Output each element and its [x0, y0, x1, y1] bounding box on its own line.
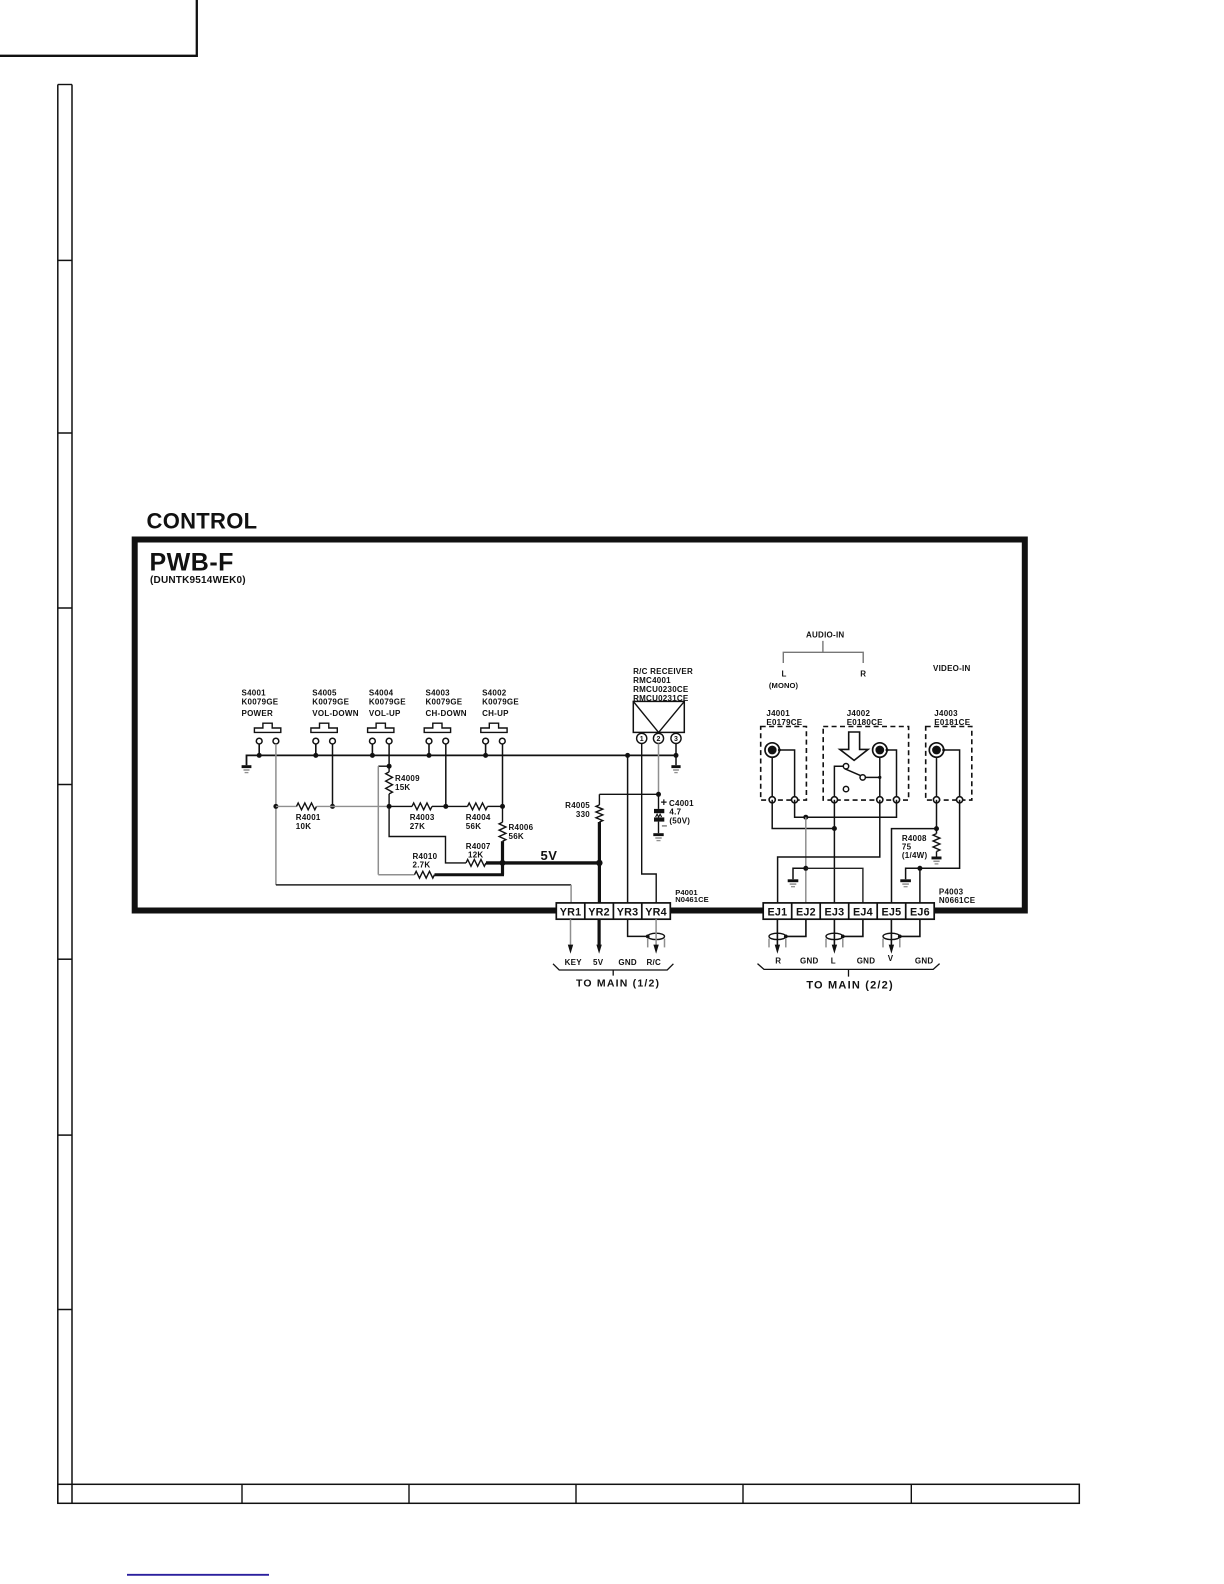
- svg-text:+: +: [661, 797, 667, 809]
- labels R GND L GND V GND: [775, 954, 933, 965]
- svg-text:GND: GND: [618, 958, 637, 967]
- receiver pin 3: [671, 733, 681, 743]
- receiver pin 1: [637, 733, 647, 743]
- junction GND bus to YR3: [625, 753, 630, 758]
- ground symbol below receiver pin3: [671, 765, 680, 772]
- wire S4004 right terminal down: [388, 744, 390, 766]
- wire KEY net S4001 right terminal down and across to YR1: [276, 744, 571, 904]
- resistor R4001 10K: [276, 803, 389, 831]
- svg-text:R4009: R4009: [395, 774, 420, 783]
- svg-text:EJ3: EJ3: [824, 906, 844, 918]
- svg-text:R/C: R/C: [647, 958, 662, 967]
- wire R/C arrow below YR4: [653, 919, 658, 954]
- junction S4004 on ground bus: [370, 753, 375, 758]
- capacitor C4001 4.7uF 50V: [654, 794, 694, 833]
- junction R4009 top: [387, 764, 392, 769]
- junction KEY/R4001: [273, 804, 278, 809]
- svg-text:R4001: R4001: [296, 813, 321, 822]
- svg-text:RMC4001: RMC4001: [633, 676, 671, 685]
- svg-text:1: 1: [640, 736, 644, 743]
- junction S4003/R4003: [443, 804, 448, 809]
- jack pin circles on dashed outlines: [769, 797, 963, 803]
- cable shield at EJ1: [769, 933, 788, 947]
- junction 5V rail / R4005: [596, 860, 602, 866]
- cable shield at EJ5: [883, 933, 902, 947]
- left revision ladder column: [58, 85, 72, 1504]
- svg-text:N0661CE: N0661CE: [939, 896, 976, 905]
- RCA jack J4003: [929, 743, 945, 757]
- svg-text:3: 3: [674, 736, 678, 743]
- label P4001 N0461CE: [675, 888, 709, 904]
- bottom table row: [58, 1484, 1080, 1503]
- wire S4002 right terminal down: [502, 744, 504, 806]
- wire J4002 switch pin down to EJ3: [833, 800, 835, 904]
- svg-text:E0181CE: E0181CE: [934, 718, 970, 727]
- wire R4005 bottom to YR2 (thick 5V): [598, 822, 601, 904]
- svg-text:K0079GE: K0079GE: [242, 697, 279, 706]
- svg-text:V: V: [888, 954, 894, 963]
- svg-text:VOL-DOWN: VOL-DOWN: [312, 709, 358, 718]
- RCA jack J4002: [873, 743, 889, 757]
- schematic border PWB-F: [135, 540, 1025, 911]
- brace TO MAIN (1/2): [553, 964, 673, 976]
- junction video ground: [917, 866, 922, 871]
- junction S4003 on ground bus: [427, 753, 432, 758]
- svg-text:YR1: YR1: [560, 906, 582, 918]
- svg-text:5V: 5V: [593, 958, 604, 967]
- junction S4005/R4001: [330, 804, 335, 809]
- svg-text:R4004: R4004: [466, 813, 491, 822]
- wire S4003 left terminal to ground bus: [428, 744, 430, 755]
- J4002 mono switch: [834, 764, 881, 800]
- svg-text:GND: GND: [915, 956, 934, 965]
- svg-text:S4004: S4004: [369, 689, 394, 698]
- wire J4001 tip to J4002 switch pin (L mono): [772, 800, 834, 829]
- jack J4001 dashed outline: [761, 727, 807, 801]
- wire J4003 sleeve to pin: [944, 750, 960, 800]
- svg-text:S4001: S4001: [242, 689, 267, 698]
- cable shield at YR4: [646, 933, 665, 947]
- resistor R4003 27K: [389, 803, 446, 831]
- svg-text:YR4: YR4: [645, 906, 667, 918]
- svg-text:56K: 56K: [509, 832, 524, 841]
- svg-text:EJ4: EJ4: [853, 906, 873, 918]
- RCA jack J4001: [765, 743, 781, 757]
- svg-text:VOL-UP: VOL-UP: [369, 709, 401, 718]
- footer blue rule: [127, 1574, 269, 1576]
- jack J4002 dashed outline: [823, 727, 908, 801]
- wire J4003 tip (video) junction: [936, 800, 938, 834]
- wire KEY arrow below YR1: [568, 919, 573, 954]
- wire GND from EJ4 to shield: [843, 919, 863, 936]
- svg-text:R/C RECEIVER: R/C RECEIVER: [633, 667, 693, 676]
- R/C receiver RMC4001 body: [633, 701, 684, 732]
- svg-text:(1/4W): (1/4W): [902, 851, 928, 860]
- junction audio ground lower: [803, 866, 808, 871]
- label S4004 K0079GE VOL-UP: [369, 689, 406, 719]
- svg-text:4.7: 4.7: [669, 808, 681, 817]
- R/C receiver RMC4001 labels: [633, 667, 693, 703]
- svg-text:VIDEO-IN: VIDEO-IN: [933, 664, 971, 673]
- svg-text:K0079GE: K0079GE: [312, 697, 349, 706]
- wire video across to EJ5: [892, 829, 937, 904]
- svg-text:E0180CE: E0180CE: [847, 718, 883, 727]
- ground symbol at bus left end: [242, 765, 252, 772]
- svg-text:(DUNTK9514WEK0): (DUNTK9514WEK0): [150, 575, 246, 586]
- svg-text:YR3: YR3: [617, 906, 639, 918]
- svg-text:R4007: R4007: [466, 842, 491, 851]
- wire S4001 left terminal to ground bus: [258, 744, 260, 755]
- svg-text:L: L: [831, 956, 836, 965]
- wire V arrow below EJ5: [889, 919, 894, 954]
- svg-text:R: R: [775, 956, 781, 965]
- wire J4001 sleeve to pin: [779, 750, 794, 800]
- switch S4005 VOL-DOWN button symbol: [311, 723, 337, 744]
- label S4001 K0079GE POWER: [242, 689, 279, 719]
- jack J4003 dashed outline: [926, 727, 972, 801]
- connector P4001 cells YR1-YR4: [556, 903, 670, 919]
- junction pin2/C4001: [656, 792, 661, 797]
- svg-text:EJ6: EJ6: [910, 906, 930, 918]
- wire L arrow below EJ3: [832, 919, 837, 954]
- switch S4001 POWER button symbol: [254, 723, 280, 744]
- resistor R4010 2.7K: [378, 766, 437, 878]
- switch S4003 CH-DOWN button symbol: [424, 723, 450, 744]
- labels KEY 5V GND R/C: [565, 958, 661, 967]
- ground symbol audio: [788, 879, 799, 886]
- svg-text:R4005: R4005: [565, 801, 590, 810]
- svg-text:(MONO): (MONO): [769, 681, 799, 690]
- wire receiver pin3 to bus/ground: [675, 744, 677, 766]
- label J4003 E0181CE: [934, 709, 970, 727]
- resistor R4009 15K: [386, 766, 420, 806]
- svg-text:5V: 5V: [541, 848, 558, 863]
- junction S4002/R4004/R4006: [500, 804, 505, 809]
- svg-text:S4002: S4002: [482, 689, 507, 698]
- J4002 insertion arrow: [840, 732, 868, 760]
- wire S4005 left terminal to ground bus: [315, 744, 317, 755]
- svg-text:CH-DOWN: CH-DOWN: [426, 709, 467, 718]
- resistor R4004 56K: [446, 803, 503, 831]
- wire R arrow below EJ1: [775, 919, 780, 954]
- svg-text:(50V): (50V): [669, 816, 690, 825]
- svg-text:27K: 27K: [410, 822, 425, 831]
- resistor R4006 56K: [499, 806, 534, 841]
- junction S4002 on ground bus: [483, 753, 488, 758]
- wire R4010 to 5V junction (thick): [435, 873, 505, 876]
- svg-text:K0079GE: K0079GE: [482, 697, 519, 706]
- svg-text:K0079GE: K0079GE: [426, 697, 463, 706]
- resistor R4008 75 (1/4W): [902, 834, 940, 861]
- label J4002 E0180CE: [847, 709, 883, 727]
- svg-text:330: 330: [576, 810, 590, 819]
- wire J4002 sleeve to pin: [887, 750, 897, 800]
- wire GND from EJ2 to shield: [786, 919, 806, 936]
- svg-text:75: 75: [902, 842, 912, 851]
- wire S4003 right terminal down: [445, 744, 447, 806]
- svg-text:TO MAIN (1/2): TO MAIN (1/2): [576, 977, 660, 989]
- svg-text:10K: 10K: [296, 822, 311, 831]
- wire J4001 tip to pin: [771, 757, 773, 800]
- wire pin2 node across to R4005: [599, 793, 658, 795]
- ground bus wire: [247, 755, 677, 765]
- resistor R4007 12K: [389, 806, 491, 866]
- label J4001 E0179CE: [766, 709, 802, 727]
- wire receiver pin1 to YR4 (R/C): [642, 744, 657, 904]
- wire S4002 left terminal to ground bus: [485, 744, 487, 755]
- svg-text:15K: 15K: [395, 783, 410, 792]
- svg-text:EJ5: EJ5: [881, 906, 901, 918]
- svg-text:K0079GE: K0079GE: [369, 697, 406, 706]
- wire receiver pin2 down: [658, 744, 660, 795]
- resistor R4005 330: [565, 794, 603, 822]
- ground symbol below R4008: [932, 857, 942, 864]
- svg-text:CH-UP: CH-UP: [482, 709, 509, 718]
- wire S4005 right terminal down: [332, 744, 334, 806]
- svg-text:E0179CE: E0179CE: [766, 718, 802, 727]
- junction S4005 on ground bus: [313, 753, 318, 758]
- brace TO MAIN (2/2): [758, 964, 940, 977]
- svg-text:R4006: R4006: [509, 823, 534, 832]
- wire audio ground across to EJ4: [806, 868, 863, 903]
- svg-text:S4005: S4005: [312, 689, 337, 698]
- svg-text:R4010: R4010: [413, 852, 438, 861]
- junction pin3 bus: [674, 753, 679, 758]
- wire GND from EJ6 to shield: [900, 919, 920, 936]
- wire 5V arrow below YR2 (thick): [596, 919, 601, 954]
- label S4002 K0079GE CH-UP: [482, 689, 519, 719]
- svg-text:AUDIO-IN: AUDIO-IN: [806, 631, 844, 640]
- junction S4001 on ground bus: [257, 753, 262, 758]
- wire video ground down to EJ6: [919, 868, 921, 903]
- svg-text:2.7K: 2.7K: [413, 861, 431, 870]
- svg-text:RMCU0230CE: RMCU0230CE: [633, 685, 689, 694]
- label P4003 N0661CE: [939, 887, 976, 905]
- wire audio ground stub to ground symbol: [793, 868, 806, 879]
- junction 5V at R4006/R4007: [500, 860, 506, 866]
- svg-text:EJ2: EJ2: [796, 906, 816, 918]
- svg-text:GND: GND: [857, 956, 876, 965]
- svg-text:YR2: YR2: [588, 906, 610, 918]
- wire GND bus down to YR3: [627, 755, 629, 903]
- svg-text:TO MAIN (2/2): TO MAIN (2/2): [806, 980, 894, 992]
- svg-text:KEY: KEY: [565, 958, 583, 967]
- junction video/R4008: [934, 826, 939, 831]
- junction audio ground: [803, 815, 808, 820]
- svg-text:S4003: S4003: [426, 689, 451, 698]
- ground symbol below C4001: [653, 833, 663, 840]
- label S4003 K0079GE CH-DOWN: [426, 689, 467, 719]
- wire R4006 bottom to 5V junction (thick): [501, 841, 504, 875]
- svg-text:GND: GND: [800, 956, 819, 965]
- svg-text:2: 2: [657, 736, 661, 743]
- svg-text:J4003: J4003: [934, 709, 958, 718]
- wire J4002 tip (R audio) to EJ1: [778, 800, 880, 904]
- svg-text:N0461CE: N0461CE: [675, 895, 709, 904]
- connector P4003 cells EJ1-EJ6: [763, 903, 934, 919]
- svg-text:P4003: P4003: [939, 887, 964, 896]
- svg-text:J4002: J4002: [847, 709, 871, 718]
- svg-text:J4001: J4001: [766, 709, 790, 718]
- svg-text:CONTROL: CONTROL: [147, 509, 258, 534]
- wire J4002 tip down through switch node to pin: [879, 757, 881, 799]
- svg-text:12K: 12K: [468, 851, 483, 860]
- svg-text:L: L: [782, 669, 787, 678]
- switch S4002 CH-UP button symbol: [481, 723, 507, 744]
- ground symbol video: [900, 879, 911, 886]
- cable shield at EJ3: [826, 933, 845, 947]
- wire audio ground down to EJ2: [805, 817, 807, 903]
- junction L mono: [832, 826, 837, 831]
- svg-text:R: R: [860, 669, 866, 678]
- switch S4004 VOL-UP button symbol: [368, 723, 394, 744]
- wire GND from YR3 to cable shield: [628, 919, 648, 936]
- svg-text:R4003: R4003: [410, 813, 435, 822]
- wire 5V rail (thick): [486, 861, 599, 864]
- svg-text:POWER: POWER: [242, 709, 273, 718]
- receiver pin 2: [653, 733, 663, 743]
- svg-text:56K: 56K: [466, 822, 481, 831]
- wire J4003 tip to pin: [936, 757, 938, 800]
- title block box top-left: [0, 0, 197, 56]
- wire J4003 sleeve ground to EJ6: [906, 800, 960, 880]
- label S4005 K0079GE VOL-DOWN: [312, 689, 358, 719]
- AUDIO-IN branch lines: [783, 641, 863, 663]
- junction R4009 bottom: [387, 804, 392, 809]
- wire S4004 left terminal to ground bus: [371, 744, 373, 755]
- svg-text:PWB-F: PWB-F: [150, 549, 234, 577]
- svg-text:EJ1: EJ1: [767, 906, 787, 918]
- wire audio ground J4001 sleeve to J4002 sleeve: [795, 800, 897, 817]
